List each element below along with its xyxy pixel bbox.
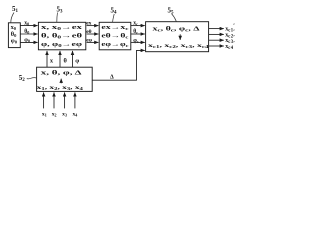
svg-text:θ: θ	[64, 57, 68, 64]
svg-text:x1, x2, x3, x4: x1, x2, x3, x4	[37, 85, 83, 91]
svg-text:54: 54	[111, 7, 118, 16]
svg-text:θ0: θ0	[24, 29, 29, 35]
svg-text:x3: x3	[62, 111, 67, 117]
svg-text:xc, θc, φc, Δ: xc, θc, φc, Δ	[153, 26, 200, 32]
svg-text:θc: θc	[133, 29, 138, 35]
svg-text:φ, φ0→eφ: φ, φ0→eφ	[41, 42, 82, 48]
svg-text:θ, θ0→eθ: θ, θ0→eθ	[41, 34, 82, 40]
svg-text:eφ: eφ	[86, 37, 92, 43]
svg-text:x1: x1	[42, 111, 47, 117]
svg-text:eφ→φc: eφ→φc	[101, 42, 128, 48]
svg-text:x2: x2	[52, 111, 57, 117]
svg-text:φ0: φ0	[24, 37, 30, 43]
svg-text:φ0: φ0	[11, 38, 18, 45]
svg-text:x4: x4	[73, 111, 78, 117]
svg-text:φc: φc	[133, 38, 139, 44]
svg-text:eθ→θc: eθ→θc	[101, 34, 128, 40]
svg-text:x: x	[50, 57, 54, 64]
svg-text:52: 52	[19, 74, 26, 83]
svg-text:′: ′	[233, 41, 235, 47]
svg-text:Δ: Δ	[110, 75, 114, 81]
svg-text:x, θ, φ, Δ: x, θ, φ, Δ	[41, 70, 82, 76]
svg-text:ex→xc: ex→xc	[101, 25, 128, 31]
svg-text:x0: x0	[24, 21, 29, 27]
svg-text:xc: xc	[133, 21, 138, 27]
svg-text:φ: φ	[75, 57, 79, 64]
svg-text:eθ: eθ	[86, 29, 91, 35]
svg-text:55: 55	[168, 7, 175, 16]
svg-text:x, x0→ex: x, x0→ex	[41, 25, 82, 31]
svg-text:51: 51	[12, 5, 19, 14]
svg-text:ex: ex	[86, 21, 91, 27]
svg-text:xc1, xc2, xc3, xc4: xc1, xc2, xc3, xc4	[148, 43, 209, 49]
